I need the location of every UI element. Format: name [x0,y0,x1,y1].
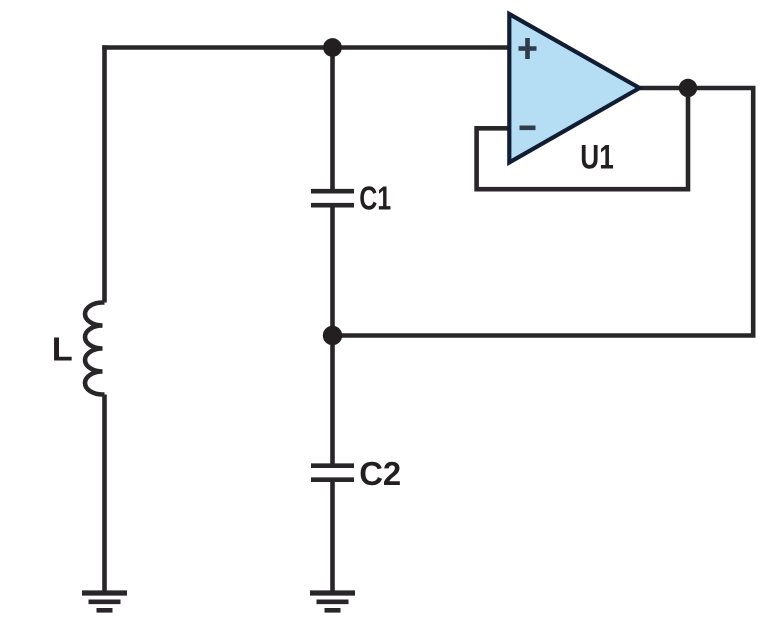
capacitor C1 [311,191,354,205]
op-amp minus input symbol [520,126,536,131]
wire middle vertical lower (C2 to ground) [330,482,335,591]
capacitor C2 [311,466,354,480]
node middle junction (C1 / C2 / feedback) [323,326,342,345]
wire middle vertical upper (top junction to C1) [330,48,335,190]
wire left vertical upper (top rail down to inductor) [102,45,107,302]
svg-text:L: L [52,331,73,368]
svg-text:C1: C1 [359,180,391,217]
inductor L [85,303,105,395]
wire output to right edge then down and back to middle junction [333,88,754,336]
op-amp U1 [509,14,639,163]
node output junction [679,79,697,97]
wire feedback from inverting input (left, down, right, up to output node) [477,88,688,189]
wire top horizontal from inductor branch to op-amp + input [102,45,509,50]
wire middle vertical (C1 to middle junction to C2) [330,207,335,464]
svg-text:U1: U1 [580,138,614,176]
wire left vertical lower (inductor to ground) [102,395,107,591]
node top junction (L / C1 / + input) [323,38,342,57]
ground (middle, below C2) [310,593,355,610]
op-amp plus input symbol [519,38,537,59]
ground (left, below L) [82,593,127,610]
svg-text:C2: C2 [359,455,401,492]
